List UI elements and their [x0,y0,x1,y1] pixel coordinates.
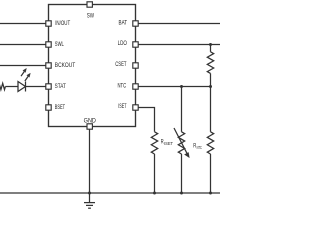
node bus/GND junction [88,192,91,195]
wire resistor to LED [5,86,18,88]
node NTC/thermistor junction [180,85,183,88]
pin IN/OUT [46,21,51,26]
wire BCKOUT net [0,65,46,67]
svg-text:IN/OUT: IN/OUT [55,21,70,27]
svg-text:BCKOUT: BCKOUT [55,63,76,69]
svg-text:ISET: ISET [118,104,127,110]
pin LDO [133,42,138,47]
svg-text:STAT: STAT [55,84,66,90]
wire RISET to ground bus [154,154,156,193]
resistor RISET [151,132,157,154]
node NTC/divider junction [209,85,212,88]
junction dots [88,43,212,195]
svg-text:NTC: NTC [197,145,202,150]
pin squares [46,2,138,129]
wire LED to STAT [26,86,46,88]
wire upper divider resistor to NTC line [210,73,212,86]
svg-text:CSET: CSET [115,62,127,68]
resistor R-LED (partially visible at left edge) [0,83,5,89]
svg-text:LDO: LDO [118,41,128,47]
svg-text:BSET: BSET [55,105,66,111]
wire LDO net [138,44,220,46]
pin CSET [133,63,138,68]
pin BCKOUT [46,63,51,68]
resistor lower divider (NTC to GND) [207,132,213,154]
svg-text:SW: SW [87,14,95,20]
pin BSET [46,105,51,110]
pin NTC [133,84,138,89]
node bus/RISET junction [153,192,156,195]
svg-text:NTC: NTC [118,84,127,90]
pin GND [87,124,92,129]
wire ISET to RISET (L-shape) [138,108,154,132]
wire NTC junction down to thermistor [181,87,183,132]
pin BAT [133,21,138,26]
wire BAT net [138,23,220,25]
wire ground bus [0,192,220,194]
pin SWL [46,42,51,47]
wire IN/OUT net [0,23,46,25]
node bus/divider junction [209,192,212,195]
LED D1 [18,68,30,91]
wire LDO junction to upper divider resistor [210,45,212,52]
svg-text:BAT: BAT [119,21,128,27]
thermistor RNTC [174,128,189,158]
svg-text:GND: GND [84,118,97,124]
node bus/RNTC junction [180,192,183,195]
pin STAT [46,84,51,89]
pin ISET [133,105,138,110]
wire RNTC to ground bus [181,154,183,193]
svg-text:ISET: ISET [164,141,173,146]
wire GND pin to ground bus [89,129,91,193]
wire SWL net [0,44,46,46]
node LDO/divider junction [209,43,212,46]
wire lower divider resistor to ground bus [210,154,212,193]
IC U1 body [49,5,136,127]
ground symbol [84,193,95,208]
wire NTC junction down to lower divider resistor [210,87,212,132]
svg-text:SWL: SWL [55,42,64,48]
wire NTC net [138,86,210,88]
resistor upper divider (LDO to NTC) [207,52,213,74]
pin SW [87,2,92,7]
